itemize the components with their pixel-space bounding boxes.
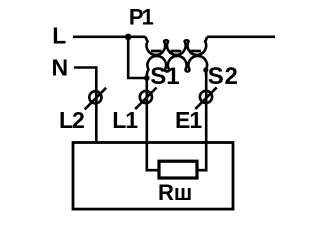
shunt resistor Rsh body: [159, 161, 197, 178]
svg-text:L1: L1: [112, 107, 138, 133]
wire N to L2 terminal to box: [74, 68, 96, 143]
svg-text:L: L: [52, 23, 66, 49]
device under test enclosure box: [73, 143, 233, 210]
wire junction to S1: [128, 37, 147, 78]
terminal slash L2: [85, 88, 106, 110]
wire S1 to L1 terminal to Rsh left: [147, 78, 159, 170]
wire L line left segment: [73, 35, 146, 38]
terminal slash E1: [195, 87, 216, 109]
svg-text:P1: P1: [129, 5, 154, 30]
transformer core (dashed): [151, 50, 201, 53]
svg-text:E1: E1: [175, 107, 202, 133]
svg-text:Rш: Rш: [158, 180, 192, 205]
polarity dot S2: [203, 67, 208, 72]
svg-text:L2: L2: [59, 107, 84, 133]
wire S2 to E1 terminal to Rsh right: [197, 70, 206, 170]
terminal circle L2: [89, 91, 101, 103]
primary winding of current transformer P1: [146, 37, 208, 55]
svg-text:N: N: [52, 55, 69, 81]
secondary winding of current transformer: [147, 56, 207, 78]
junction dot S1: [144, 75, 150, 81]
junction node on L line: [125, 34, 132, 41]
wire L line right segment: [207, 35, 275, 38]
terminal slash L1: [135, 88, 156, 110]
svg-text:S1: S1: [150, 63, 179, 90]
terminal circle L1: [140, 91, 152, 103]
svg-text:S2: S2: [208, 63, 239, 90]
terminal circle E1: [200, 91, 212, 103]
